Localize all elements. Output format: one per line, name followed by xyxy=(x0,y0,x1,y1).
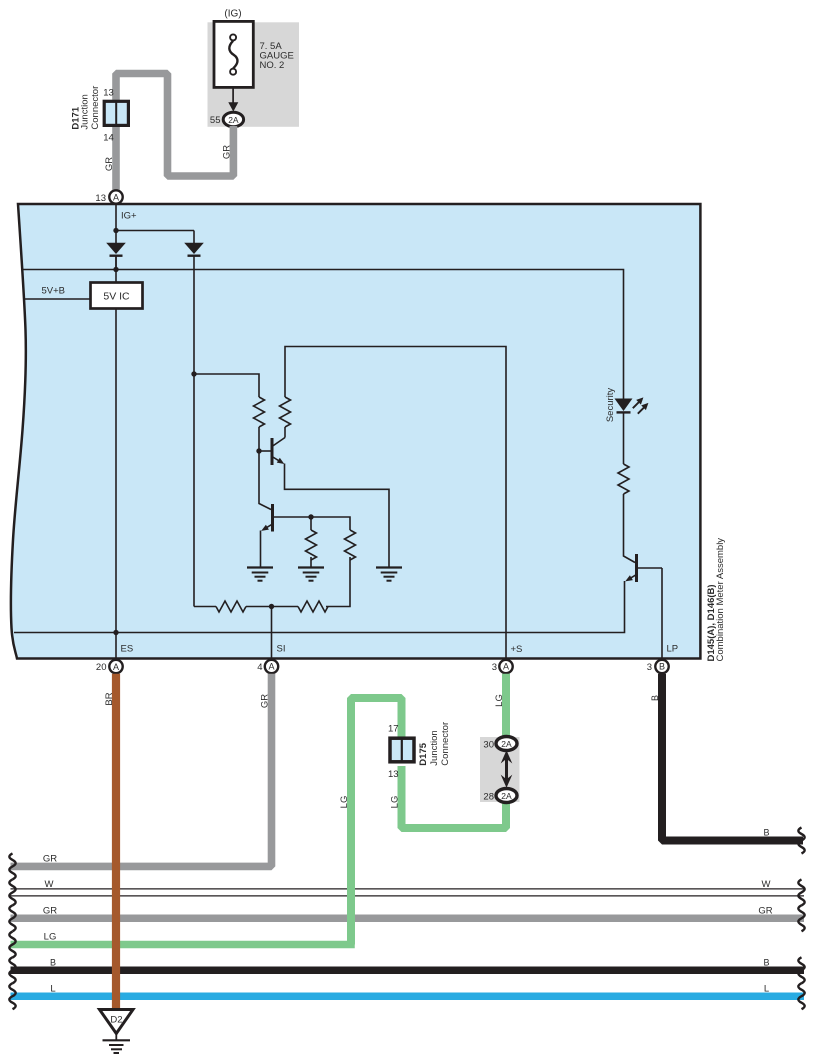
svg-text:L: L xyxy=(764,984,769,995)
svg-text:D175: D175 xyxy=(418,742,429,765)
svg-text:3: 3 xyxy=(492,662,497,673)
ground D2 xyxy=(100,1010,134,1054)
transistor Q1 xyxy=(272,438,285,466)
wire Q1 emitter to ground G3 xyxy=(285,464,390,568)
svg-text:5V+B: 5V+B xyxy=(42,286,66,297)
label D145(A), D146(B) Combination Meter Assembly xyxy=(706,538,726,662)
svg-text:LG: LG xyxy=(339,796,350,809)
svg-text:NO. 2: NO. 2 xyxy=(260,60,285,71)
svg-text:GR: GR xyxy=(222,145,233,159)
svg-text:17: 17 xyxy=(388,724,399,735)
wire GR from D171 pin 14 to meter pin 13 xyxy=(112,126,120,194)
node junction dot base Q2 xyxy=(308,514,313,519)
wire to diode D2 branch xyxy=(116,230,194,232)
gray panel for 2A connectors xyxy=(480,737,520,802)
svg-text:B: B xyxy=(650,695,660,701)
pin 13 (A) connector circle at meter xyxy=(109,190,122,203)
wire GR from fuse 2A to junction connector D171 xyxy=(116,74,233,177)
break symbol GR2 bus right xyxy=(798,905,804,931)
svg-text:LG: LG xyxy=(494,694,505,707)
pin 20 (A) ES xyxy=(109,660,122,673)
svg-text:B: B xyxy=(659,662,665,672)
svg-text:W: W xyxy=(45,879,54,890)
label D171 Junction Connector xyxy=(71,86,102,130)
svg-text:3: 3 xyxy=(647,662,652,673)
svg-text:14: 14 xyxy=(103,133,114,144)
svg-text:2A: 2A xyxy=(501,739,512,749)
label LG left xyxy=(339,796,350,809)
wire SI resistor rail xyxy=(194,606,216,608)
wire node to R3 xyxy=(310,517,312,530)
node junction dot at inner ground rail xyxy=(113,630,118,635)
wire xyxy=(246,606,298,608)
wire ES vertical x=115.5 xyxy=(115,256,117,660)
label GR wire SI xyxy=(260,694,271,708)
svg-text:LG: LG xyxy=(44,932,57,943)
junction connector D175 xyxy=(390,738,414,762)
break symbol W bus left xyxy=(9,879,15,905)
connector pin 30 (2A) xyxy=(496,737,517,751)
break symbol B wire right xyxy=(798,828,804,854)
wire R4 to SI rail xyxy=(326,557,350,607)
svg-text:D2: D2 xyxy=(110,1015,122,1026)
pin 3 (A) +S xyxy=(499,660,512,673)
pin 4 (A) SI xyxy=(265,660,278,673)
svg-text:LP: LP xyxy=(667,644,679,655)
node junction dot SI xyxy=(269,604,274,609)
svg-text:2A: 2A xyxy=(228,115,239,125)
resistor R5 xyxy=(216,601,246,612)
break symbol GR2 bus left xyxy=(9,905,15,931)
resistor R4 xyxy=(345,530,356,560)
wire LG from D175 to LG bus xyxy=(351,698,402,945)
svg-text:GR: GR xyxy=(43,854,57,865)
wire LG from connector 28 to D175 xyxy=(402,766,507,828)
wire from fuse to connector 2A xyxy=(232,87,234,103)
resistor R7 xyxy=(618,464,629,494)
svg-text:A: A xyxy=(113,662,119,672)
bus W white wire xyxy=(11,889,805,896)
wire base Q1 xyxy=(259,450,271,452)
bus L xyxy=(11,992,805,1000)
LED security with arrows xyxy=(615,397,649,413)
svg-text:Junction: Junction xyxy=(80,94,91,129)
svg-text:GR: GR xyxy=(104,157,115,171)
diode D1 xyxy=(106,231,126,270)
diode D2 (internal) xyxy=(184,231,204,256)
wire Q3 base to LP pin xyxy=(661,568,663,660)
label GR (left wire) xyxy=(104,157,115,171)
resistor R3 xyxy=(306,530,317,560)
wire LG from +S pin to connector 30 xyxy=(502,674,510,740)
svg-text:Connector: Connector xyxy=(90,86,101,130)
label Security xyxy=(605,388,616,423)
IC U1 5V IC xyxy=(91,283,143,309)
svg-text:GR: GR xyxy=(43,906,57,917)
wire from diode D2 down to resistor rail xyxy=(193,256,195,607)
svg-text:GR: GR xyxy=(758,906,772,917)
break symbol GR bus left xyxy=(9,853,15,879)
svg-text:B: B xyxy=(50,958,56,968)
wire 5V+B stub xyxy=(24,298,91,300)
svg-text:+S: +S xyxy=(511,644,523,655)
svg-text:A: A xyxy=(113,193,119,203)
svg-text:A: A xyxy=(503,662,509,672)
svg-text:(IG): (IG) xyxy=(224,9,241,20)
svg-text:ES: ES xyxy=(121,644,134,655)
svg-text:13: 13 xyxy=(95,193,106,204)
svg-text:Combination Meter Assembly: Combination Meter Assembly xyxy=(715,538,726,662)
label BR xyxy=(104,692,115,705)
label GR (right wire) xyxy=(222,145,233,159)
label LG at +S xyxy=(494,694,505,707)
wire base rail to R4 xyxy=(311,517,350,530)
node junction dot IG+ xyxy=(113,228,118,233)
resistor R1 xyxy=(254,397,265,427)
break symbol LG bus left xyxy=(9,932,15,958)
svg-text:13: 13 xyxy=(388,769,399,780)
junction connector D171 xyxy=(104,101,128,125)
svg-text:LG: LG xyxy=(390,796,401,809)
svg-text:Security: Security xyxy=(605,388,616,423)
svg-text:GR: GR xyxy=(260,694,271,708)
transistor Q2 xyxy=(261,504,311,532)
svg-text:55: 55 xyxy=(210,115,221,126)
svg-text:B: B xyxy=(763,958,769,968)
wire BR from ES pin to ground D2 xyxy=(112,674,120,1010)
wire SI vertical to pin 4 xyxy=(271,607,273,661)
svg-text:30: 30 xyxy=(483,739,494,750)
fuse F1 7.5A GAUGE NO.2 xyxy=(214,21,253,87)
wire R7 to Q3 collector xyxy=(624,494,636,563)
svg-text:L: L xyxy=(50,984,55,995)
bus B xyxy=(11,967,805,975)
fuse background panel xyxy=(208,22,300,127)
label LG right xyxy=(390,796,401,809)
svg-text:2A: 2A xyxy=(501,791,512,801)
connector pin 55 (2A) xyxy=(223,112,243,126)
node junction dot xyxy=(191,371,196,376)
svg-text:W: W xyxy=(762,879,771,890)
wire R3 to ground G2 xyxy=(310,557,312,568)
svg-text:5V IC: 5V IC xyxy=(103,291,130,303)
combination meter assembly box D145(A) D146(B) xyxy=(11,204,700,659)
resistor R6 xyxy=(298,601,328,612)
wire GR from SI pin to GR bus xyxy=(11,674,272,867)
wire Q3 emitter to inner ground rail xyxy=(14,581,625,633)
wire horizontal rail y=269.5 to LED branch xyxy=(23,270,624,399)
svg-text:20: 20 xyxy=(96,662,107,673)
ground G2 xyxy=(298,568,324,581)
ground G3 xyxy=(376,568,402,581)
label B wire LP xyxy=(650,695,660,701)
svg-text:28: 28 xyxy=(483,792,494,803)
wire B from LP pin xyxy=(662,674,803,841)
junction arrow between 30 and 28 xyxy=(501,750,513,788)
break symbol L bus right xyxy=(798,983,804,1009)
pin 3 (B) LP xyxy=(655,660,668,673)
bus GR lower xyxy=(11,915,805,923)
wire LED to R7 xyxy=(623,412,625,464)
svg-text:A: A xyxy=(268,662,274,672)
break symbol W bus right xyxy=(798,879,804,905)
svg-text:Connector: Connector xyxy=(440,722,451,766)
ground G1 xyxy=(247,568,273,581)
wire base node to Q2 collector xyxy=(259,451,271,510)
wire R1 to base node xyxy=(258,427,260,451)
node junction dot on rail xyxy=(113,267,118,272)
svg-text:IG+: IG+ xyxy=(121,211,137,222)
label D175 Junction Connector xyxy=(418,722,451,766)
bus LG xyxy=(11,941,355,949)
svg-text:13: 13 xyxy=(103,88,114,99)
wire branch to R1 xyxy=(194,374,259,397)
transistor Q3 xyxy=(625,554,662,582)
break symbol L bus left xyxy=(9,983,15,1009)
svg-text:BR: BR xyxy=(104,692,115,705)
svg-text:4: 4 xyxy=(257,662,262,673)
wire IG+ vertical into meter xyxy=(115,204,117,231)
connector pin 28 (2A) xyxy=(496,789,517,803)
wire Q2 emitter to ground G1 xyxy=(260,531,262,568)
svg-text:SI: SI xyxy=(277,644,286,655)
resistor R2 xyxy=(280,397,291,427)
wire R2 bottom to Q1 collector xyxy=(284,427,286,438)
svg-text:Junction: Junction xyxy=(429,730,440,765)
break symbol B bus right xyxy=(798,957,804,983)
svg-text:B: B xyxy=(763,828,769,838)
break symbol B bus left xyxy=(9,957,15,983)
wire R2 top to +S rail xyxy=(285,347,506,661)
node junction dot base Q1 xyxy=(256,448,261,453)
